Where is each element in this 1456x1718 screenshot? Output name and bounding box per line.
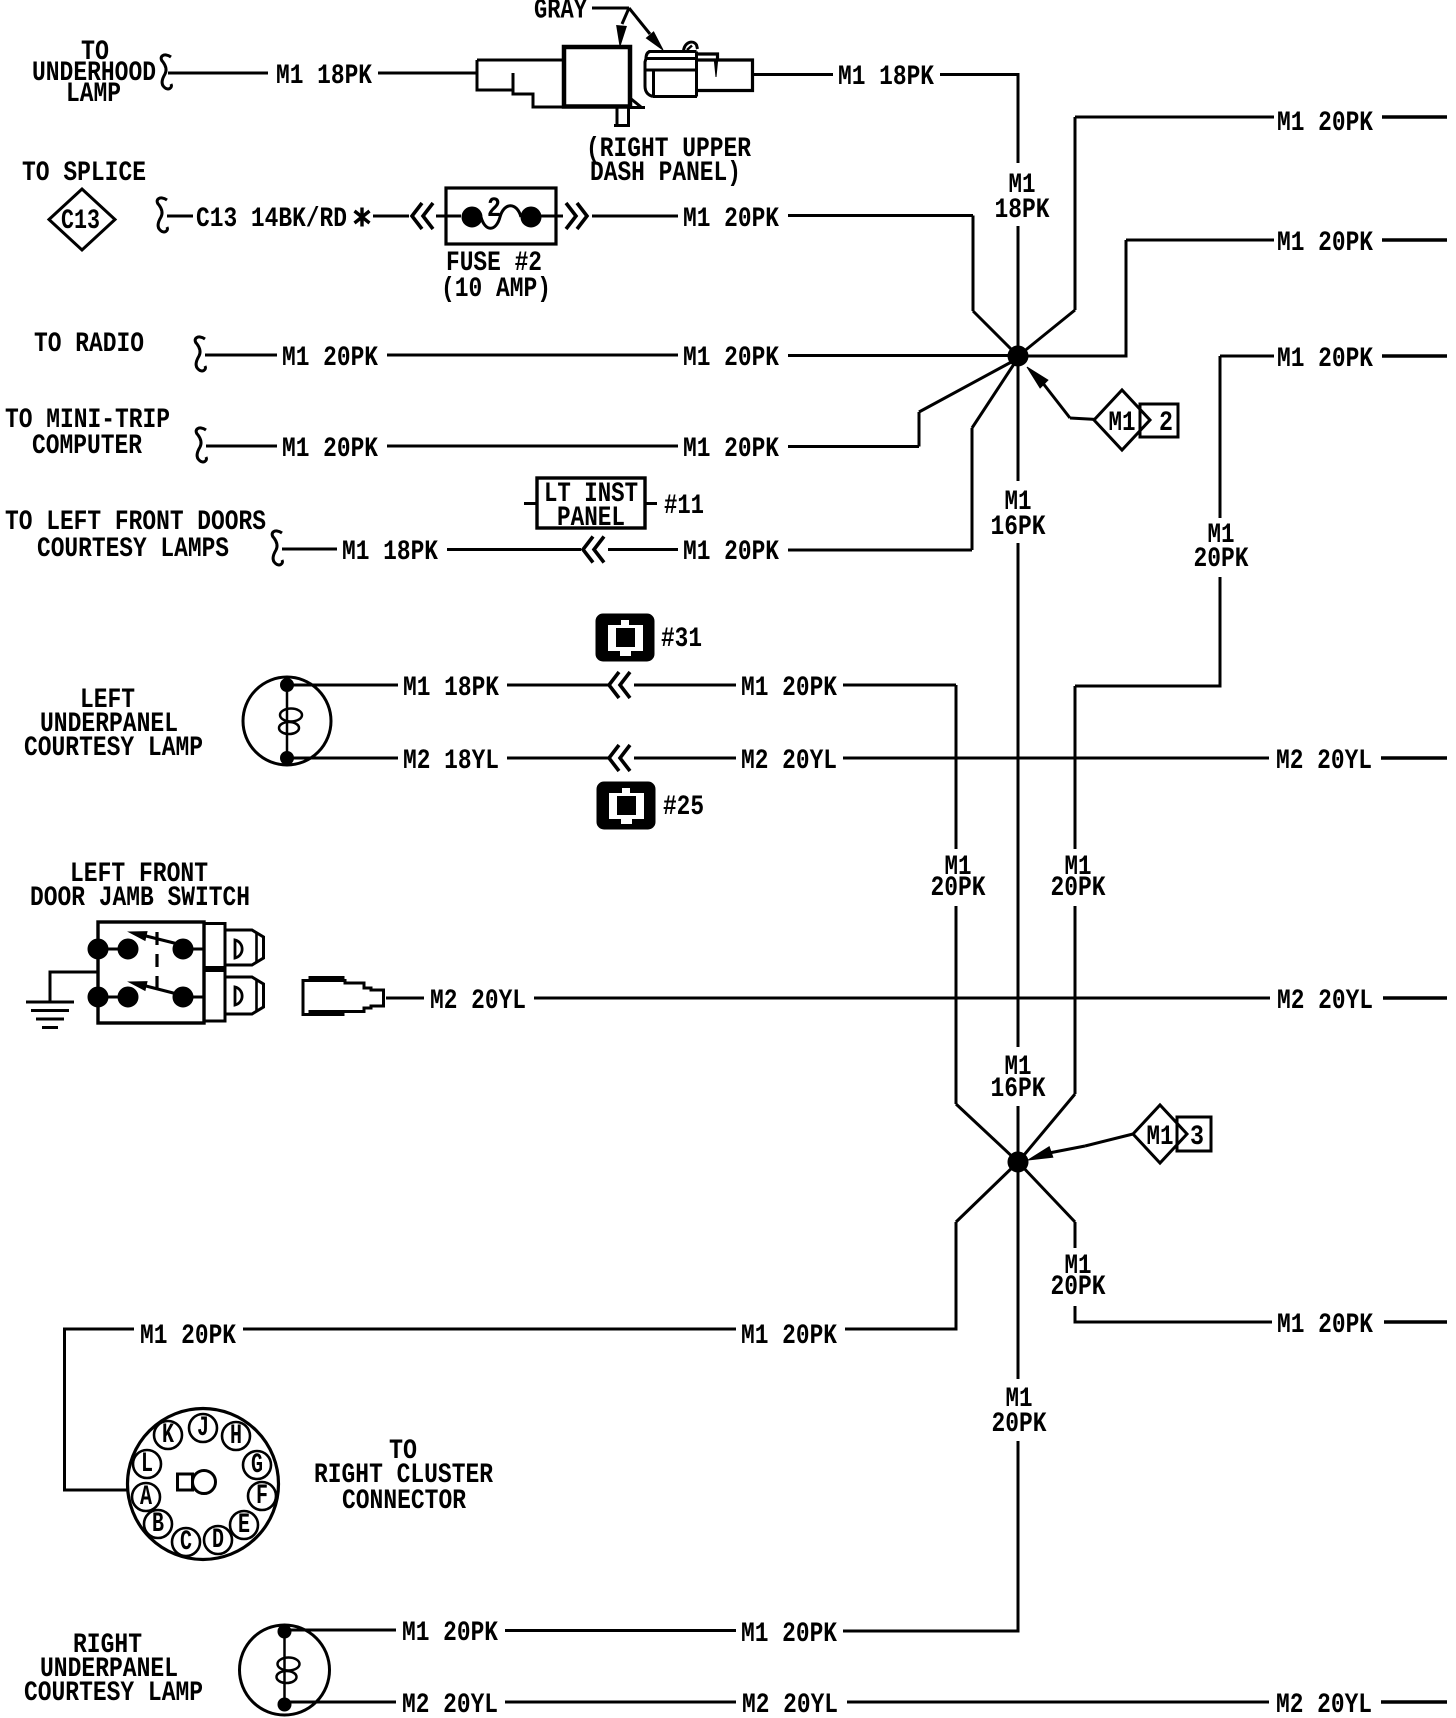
wire fuse row to corner [788, 214, 973, 217]
wire doors to corner [788, 549, 972, 552]
svg-text:16PK: 16PK [991, 1074, 1046, 1105]
connector chevrons lamp row 1 [609, 672, 630, 698]
svg-text:CONNECTOR: CONNECTOR [342, 1486, 466, 1517]
pin D right cluster connector [204, 1526, 232, 1554]
inline connector icon #25 [597, 782, 655, 829]
svg-text:G: G [251, 1450, 263, 1481]
switch SW1 terminal 2 step [203, 971, 225, 1022]
wire south continues to lamp row [1017, 1441, 1020, 1632]
wire mini-trip lead [206, 445, 277, 448]
svg-text:TO SPLICE: TO SPLICE [22, 158, 146, 189]
wire drop to splice S2 [955, 906, 958, 1104]
wire jamb row long [534, 997, 1270, 1000]
svg-text:M1 20PK: M1 20PK [741, 673, 837, 704]
wire doors mid [447, 548, 581, 551]
wire M1 16PK into splice S2 [1017, 1106, 1020, 1154]
connector chevrons doors [583, 537, 604, 563]
wire switch to ground [50, 972, 98, 1002]
switch SW1 contact dots row 1 [88, 939, 108, 959]
switch SW1 blade 2 [146, 986, 181, 995]
wire across to inner drop [1075, 685, 1222, 688]
svg-text:E: E [238, 1510, 250, 1541]
svg-text:C: C [180, 1527, 192, 1558]
wire to vertical drop [940, 73, 1020, 76]
connector pigtail door jamb switch [303, 978, 384, 1015]
wire out of fuse box [541, 215, 563, 218]
wire break symbol radio [195, 337, 205, 371]
wire radio lead [205, 354, 277, 357]
wire C13 lead [167, 215, 193, 218]
wire break symbol mini-trip [196, 428, 206, 462]
wire SE row east [1075, 1321, 1272, 1324]
switch SW1 terminal 1 step [203, 924, 225, 968]
wire sw row to corner [63, 1328, 134, 1331]
wire diagonal into splice S1 from doors [972, 361, 1016, 428]
wire M1 18PK connector-to-bus [753, 73, 833, 76]
svg-text:M1: M1 [1109, 408, 1136, 439]
svg-text:J: J [197, 1413, 209, 1444]
wire M1 18PK lamp row 1 [293, 684, 398, 687]
svg-text:M2 20YL: M2 20YL [1276, 746, 1372, 777]
svg-text:2: 2 [1159, 408, 1173, 439]
svg-text:M1 20PK: M1 20PK [1277, 344, 1373, 375]
svg-text:M1 20PK: M1 20PK [1277, 228, 1373, 259]
svg-text:(10 AMP): (10 AMP) [441, 274, 551, 305]
receptacle rear shell [697, 54, 753, 91]
wire M1 20PK top right row 1 [1075, 116, 1274, 119]
connector C2 right cluster circular shell [128, 1409, 279, 1560]
wire diagonal into splice S2 left [956, 1104, 1017, 1161]
pin B right cluster connector [144, 1510, 172, 1538]
svg-text:M1 20PK: M1 20PK [282, 434, 378, 465]
fuse F2 left terminal dot [462, 207, 482, 227]
callout ticks [524, 502, 537, 505]
wire M2 20YL lamp2 row 2 [290, 1701, 396, 1704]
wire inner drop upper [1074, 686, 1077, 849]
svg-text:GRAY: GRAY [534, 0, 587, 27]
svg-text:#31: #31 [661, 624, 702, 655]
wire lamp row 2 mid 2 [634, 757, 736, 760]
pin K right cluster connector [154, 1421, 182, 1449]
wire to connector C1 [378, 72, 477, 75]
ground symbol [26, 1001, 74, 1004]
svg-text:M1 20PK: M1 20PK [140, 1321, 236, 1352]
connector chevrons into fuse [412, 203, 433, 229]
switch SW1 pole link row 2 [98, 996, 128, 999]
svg-text:20PK: 20PK [931, 873, 986, 904]
svg-text:M1 18PK: M1 18PK [403, 673, 499, 704]
svg-text:COURTESY LAMP: COURTESY LAMP [24, 1678, 203, 1709]
svg-text:M1 20PK: M1 20PK [282, 343, 378, 374]
splice S2 junction dot [1008, 1152, 1028, 1172]
svg-text:DOOR JAMB SWITCH: DOOR JAMB SWITCH [30, 883, 250, 914]
splice id arrow S2 [1049, 1146, 1085, 1153]
wire M1 18PK vertical to splice [1017, 226, 1020, 348]
connector C1 plug half (male) [477, 60, 564, 107]
svg-text:COURTESY LAMP: COURTESY LAMP [24, 733, 203, 764]
wire diagonal into splice S1 from row 1 [1017, 310, 1075, 357]
wire M1 16PK continues [1017, 543, 1020, 1047]
svg-text:M2 20YL: M2 20YL [1277, 986, 1373, 1017]
wire M1 16PK splice S1 down [1017, 365, 1020, 481]
svg-text:D: D [212, 1525, 224, 1556]
wire mini-trip to corner [788, 445, 919, 448]
lamp L1 left underpanel courtesy lamp [243, 677, 331, 765]
wire splice S2 southeast diagonal [1019, 1163, 1075, 1222]
svg-text:LAMP: LAMP [66, 79, 121, 110]
svg-text:M1 18PK: M1 18PK [276, 61, 372, 92]
svg-text:18PK: 18PK [995, 195, 1050, 226]
svg-text:M1 20PK: M1 20PK [1277, 108, 1373, 139]
wire radio mid [387, 354, 678, 357]
wire row 3 vertical drop [1219, 356, 1222, 518]
wire lamp row 1 to corner [843, 684, 956, 687]
connector C1 plug body [564, 47, 630, 107]
arrow to receptacle half [629, 8, 650, 34]
wire lamp row 2 mid [507, 757, 608, 760]
wire lamp2 row 2 to right edge [1381, 1700, 1447, 1703]
wire SE branch down [1074, 1222, 1077, 1248]
wire to fuse connector [373, 215, 409, 218]
switch SW1 body [98, 922, 204, 1023]
svg-text:A: A [140, 1482, 152, 1513]
wire jamb row to right edge [1383, 996, 1447, 999]
svg-text:M2 20YL: M2 20YL [742, 1690, 838, 1718]
switch SW1 terminal 1 tab [225, 930, 264, 965]
arrow to plug half [622, 8, 629, 24]
wire lamp row 1 corner down [955, 685, 958, 849]
svg-text:20PK: 20PK [1051, 873, 1106, 904]
switch SW1 linkage dashed line [155, 932, 158, 991]
receptacle wire seal hook [684, 42, 698, 51]
svg-text:M2 20YL: M2 20YL [741, 746, 837, 777]
svg-text:M1 18PK: M1 18PK [838, 62, 934, 93]
svg-text:L: L [141, 1449, 153, 1480]
svg-text:H: H [230, 1421, 242, 1452]
splice id diamond M1 [1094, 390, 1150, 450]
svg-text:20PK: 20PK [992, 1409, 1047, 1440]
wire row 2 to right edge [1382, 238, 1447, 241]
terminal 2 D hole [235, 987, 242, 1005]
callout LT INST PANEL box [537, 478, 645, 528]
wire M2 20YL jamb lead [386, 997, 424, 1000]
leader line GRAY [592, 7, 629, 10]
svg-text:C13: C13 [61, 206, 100, 237]
svg-text:F: F [256, 1481, 268, 1512]
fuse F2 element wave [481, 206, 521, 229]
connector chevrons out of fuse [566, 203, 587, 229]
wire lamp row 2 long [843, 757, 1269, 760]
connector C1 receptacle half (female) [645, 52, 697, 97]
wire break symbol splice [157, 198, 167, 232]
wire SE branch down 2 [1074, 1306, 1077, 1324]
svg-text:#11: #11 [664, 491, 704, 522]
svg-text:DASH PANEL): DASH PANEL) [590, 158, 741, 189]
pin G right cluster connector [243, 1451, 271, 1479]
switch SW1 terminal 2 tab [225, 977, 264, 1014]
wire corner down to cluster connector [63, 1329, 66, 1492]
switch SW1 pole link row 1 [98, 948, 128, 951]
wire break symbol underhood [161, 55, 171, 89]
wire mini-trip mid [387, 445, 678, 448]
connector C2 keyway [178, 1474, 193, 1490]
wire diagonal into splice S2 [1019, 1094, 1075, 1161]
wire M1 18PK underhood-to-connector [168, 72, 268, 75]
splice S1 junction dot [1008, 346, 1028, 366]
wire row 1 vertical drop [1074, 117, 1077, 310]
wire mini-trip corner up [918, 412, 921, 447]
switch SW1 contact dots row 2 [88, 987, 108, 1007]
svg-text:TO RADIO: TO RADIO [34, 329, 144, 360]
wire into cluster connector [65, 1489, 129, 1492]
svg-text:M1 18PK: M1 18PK [342, 537, 438, 568]
svg-text:M1 20PK: M1 20PK [741, 1321, 837, 1352]
switch SW1 blade 1 [146, 936, 182, 945]
svg-text:2: 2 [487, 194, 501, 225]
wire doors corner up [971, 428, 974, 550]
asterisk symbol [355, 208, 370, 227]
wire splice S2 south [1017, 1170, 1020, 1379]
svg-text:M2 18YL: M2 18YL [403, 746, 499, 777]
wire lamp2 row 1 to splice drop [843, 1630, 1020, 1633]
pin H right cluster connector [222, 1422, 250, 1450]
svg-text:M2 20YL: M2 20YL [430, 986, 526, 1017]
pin C right cluster connector [172, 1528, 200, 1556]
receptacle lock tab line [714, 60, 717, 77]
svg-text:M2 20YL: M2 20YL [1276, 1690, 1372, 1718]
svg-text:#25: #25 [663, 792, 704, 823]
wire doors lead [282, 548, 337, 551]
svg-text:K: K [162, 1420, 174, 1451]
svg-text:M1 20PK: M1 20PK [683, 537, 779, 568]
splice id diamond M1 S2 [1133, 1105, 1187, 1163]
svg-text:C13 14BK/RD: C13 14BK/RD [196, 204, 347, 235]
wire lamp2 row 2 long [847, 1701, 1269, 1704]
svg-text:COMPUTER: COMPUTER [32, 431, 142, 462]
lamp L2 right underpanel courtesy lamp [240, 1625, 330, 1715]
wire fuse to label [592, 215, 678, 218]
wire SW branch row west [845, 1328, 956, 1331]
svg-text:M1 20PK: M1 20PK [1277, 1310, 1373, 1341]
wire M1 18PK vertical drop [1017, 75, 1020, 164]
connector C1 plug lock flag [628, 98, 645, 108]
splice symbol C13 diamond [49, 189, 115, 250]
splice id box 3 [1177, 1117, 1211, 1153]
fuse F2 right terminal dot [521, 207, 541, 227]
svg-text:M1 20PK: M1 20PK [741, 1619, 837, 1650]
wire row 2 vertical drop [1125, 240, 1128, 358]
svg-text:B: B [152, 1509, 164, 1540]
svg-text:M1 20PK: M1 20PK [402, 1618, 498, 1649]
terminal 1 D hole [235, 940, 242, 958]
connector C1 plug bottom stub [614, 108, 630, 126]
wire M1 20PK lamp2 row 1 [290, 1629, 396, 1632]
wire lamp row 1 mid [507, 684, 608, 687]
svg-text:M1 20PK: M1 20PK [683, 343, 779, 374]
svg-text:PANEL: PANEL [557, 503, 625, 534]
wire diagonal into splice S1 [973, 311, 1019, 357]
wire corner down to splice S1 [972, 216, 975, 312]
splice id arrow S1 [1042, 382, 1070, 418]
wire diagonal into splice S1 from mini-trip [919, 360, 1015, 412]
connector chevrons lamp row 2 [609, 745, 630, 771]
wire sw row mid [243, 1328, 736, 1331]
wire doors mid 2 [608, 548, 678, 551]
pin L right cluster connector [133, 1450, 161, 1478]
fuse F2 box [446, 188, 556, 244]
svg-text:M2 20YL: M2 20YL [402, 1690, 498, 1718]
svg-text:3: 3 [1190, 1122, 1204, 1153]
svg-text:COURTESY LAMPS: COURTESY LAMPS [37, 534, 229, 565]
wire M1 20PK top right row 2 [1126, 239, 1274, 242]
wire splice S2 southwest diagonal [956, 1163, 1017, 1222]
wire M1 20PK top right row 3 [1220, 355, 1274, 358]
wire break symbol doors [272, 531, 282, 565]
wire lamp row 1 mid 2 [634, 684, 736, 687]
splice id box 2 [1140, 404, 1178, 439]
svg-text:M1 20PK: M1 20PK [683, 434, 779, 465]
wire lamp row 2 to right edge [1381, 756, 1447, 759]
svg-text:20PK: 20PK [1194, 544, 1249, 575]
wire radio to splice S1 [788, 354, 1016, 357]
wire splice S1 east branch [1016, 355, 1128, 358]
pin A right cluster connector [132, 1483, 160, 1511]
svg-text:20PK: 20PK [1051, 1272, 1106, 1303]
inline connector icon #31 [596, 614, 654, 661]
wire lamp2 row 1 mid [505, 1629, 736, 1632]
wire into fuse box [436, 215, 461, 218]
wire M2 18YL lamp row 2 [293, 757, 398, 760]
wire drop continues [1219, 577, 1222, 688]
wire se row to right edge [1384, 1320, 1447, 1323]
pin F right cluster connector [248, 1482, 276, 1510]
wire row 1 to right edge [1382, 115, 1447, 118]
wire row 3 to right edge [1382, 354, 1447, 357]
wire SW branch down [955, 1222, 958, 1331]
svg-text:M1: M1 [1147, 1122, 1174, 1153]
pin E right cluster connector [230, 1511, 258, 1539]
pin J right cluster connector [189, 1414, 217, 1442]
svg-text:M1 20PK: M1 20PK [683, 204, 779, 235]
wire lamp2 row 2 mid [505, 1701, 736, 1704]
svg-text:16PK: 16PK [991, 512, 1046, 543]
wire inner drop lower [1074, 906, 1077, 1094]
